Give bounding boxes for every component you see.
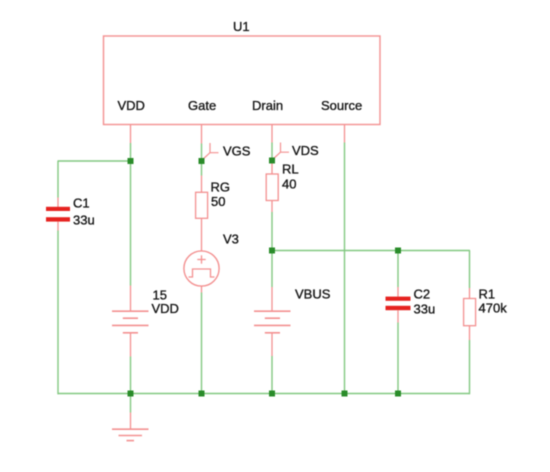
svg-text:Gate: Gate (188, 98, 216, 113)
wire node to RG top (201, 161, 203, 176)
svg-text:VDD: VDD (152, 301, 179, 316)
wire node to C1 top (58, 160, 131, 162)
probe VDS (272, 143, 289, 161)
op-amp U1 (104, 36, 381, 125)
wire node to battery V1 top (130, 161, 132, 286)
wire Source pin to rail (344, 143, 346, 394)
node Drain/VDS junction (269, 158, 275, 164)
pin label VDD (118, 98, 145, 113)
pin Source stub (344, 125, 346, 143)
wire V3 bottom to rail (201, 293, 203, 394)
value 33u (C2) (414, 302, 436, 317)
svg-text:Drain: Drain (252, 98, 283, 113)
wire corner to R1 top (469, 251, 471, 289)
label RL (282, 162, 299, 177)
svg-text:VDS: VDS (292, 143, 319, 158)
resistor R1 (464, 288, 476, 340)
label V3 (223, 232, 239, 247)
pin Drain stub (271, 125, 273, 143)
wire bottom rail (58, 393, 471, 395)
svg-text:470k: 470k (479, 301, 508, 316)
svg-text:U1: U1 (233, 19, 250, 34)
svg-text:RL: RL (282, 162, 299, 177)
pin label Drain (252, 98, 283, 113)
wire node to R1 top (horizontal) (272, 250, 470, 252)
svg-text:C1: C1 (73, 196, 90, 211)
value 33u (C1) (73, 213, 95, 228)
pin VDD stub (130, 125, 132, 144)
svg-text:C2: C2 (414, 287, 431, 302)
wire C1 bottom to ground rail (57, 231, 59, 395)
resistor RG (196, 176, 208, 252)
node rail/ground junction (128, 391, 134, 397)
label R1 (479, 287, 496, 302)
capacitor C2 (386, 287, 411, 323)
value 15 (V1) (153, 288, 167, 303)
pin label Source (321, 98, 362, 113)
svg-text:VDD: VDD (118, 98, 145, 113)
svg-text:33u: 33u (414, 302, 436, 317)
label VBUS (295, 287, 331, 302)
battery V1 (15 VDD) (112, 286, 149, 357)
label C2 (414, 287, 431, 302)
svg-text:33u: 33u (73, 213, 95, 228)
wire C1 upper lead (57, 161, 59, 198)
node rail/Source junction (342, 391, 348, 397)
svg-text:V3: V3 (223, 232, 239, 247)
source V3 (184, 251, 219, 293)
label U1 (233, 19, 250, 34)
ground (112, 413, 149, 441)
wire C2 bottom to rail (397, 323, 399, 394)
wire RL bottom to node (271, 212, 273, 251)
node rail/V3 junction (199, 391, 205, 397)
label C1 (73, 196, 90, 211)
pin label Gate (188, 98, 216, 113)
battery VBUS (254, 287, 291, 356)
node RL/VBUS junction (269, 248, 275, 254)
wire R1 bottom to rail (469, 340, 471, 394)
value 470k (R1) (479, 301, 508, 316)
wire node to C2 top (397, 251, 399, 288)
wire VBUS bottom to rail (271, 356, 273, 394)
label RG (211, 180, 231, 195)
value 50 (RG) (211, 194, 225, 209)
wire Drain pin to node (271, 143, 273, 161)
wire battery V1 bottom to rail (130, 357, 132, 394)
svg-text:Source: Source (321, 98, 362, 113)
node C2 top junction (395, 248, 401, 254)
label VGS (223, 144, 251, 159)
svg-text:VBUS: VBUS (295, 287, 331, 302)
pin Gate stub (201, 125, 203, 144)
svg-text:40: 40 (282, 177, 296, 192)
svg-text:R1: R1 (479, 287, 496, 302)
capacitor C1 (46, 198, 70, 231)
value 40 (RL) (282, 177, 296, 192)
node Gate/VGS junction (199, 158, 205, 164)
wire Gate pin to node (201, 144, 203, 162)
node rail/VBUS junction (269, 391, 275, 397)
svg-text:VGS: VGS (223, 144, 251, 159)
label VDS (292, 143, 319, 158)
svg-text:RG: RG (211, 180, 231, 195)
resistor RL (266, 162, 278, 212)
node rail/C2 junction (395, 391, 401, 397)
label VDD net (152, 301, 179, 316)
svg-text:50: 50 (211, 194, 225, 209)
node VDD/C1 junction (128, 158, 134, 164)
wire node to VBUS top (271, 251, 273, 288)
probe VGS (202, 143, 219, 161)
wire rail to ground (130, 394, 132, 413)
wire VDD pin to node (130, 143, 132, 161)
